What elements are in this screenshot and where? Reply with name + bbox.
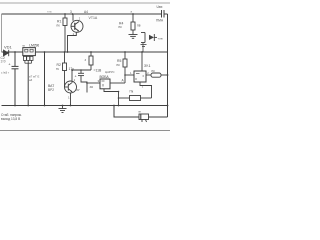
svg-text:пк: пк — [117, 63, 121, 67]
svg-text:ЦАРУС: ЦАРУС — [105, 70, 115, 74]
svg-text:LM296: LM296 — [29, 43, 39, 47]
diode VD1 — [4, 50, 9, 56]
wire U1 pin to bus — [27, 63, 29, 105]
IC DA2 — [100, 79, 110, 89]
IC DA1 — [134, 71, 146, 82]
photo top edge — [0, 2, 170, 4]
switch SA1 — [141, 33, 157, 43]
wire right bus — [167, 14, 169, 117]
wire bottom bus — [2, 105, 168, 107]
svg-text:=11В: =11В — [94, 69, 102, 73]
junction dots — [14, 13, 168, 106]
wire SA1 to rail — [142, 43, 144, 53]
svg-text:1т0: 1т0 — [1, 60, 6, 64]
transistor VT1 — [68, 14, 84, 52]
svg-text:2: 2 — [74, 78, 76, 82]
ground under R4 — [129, 35, 138, 39]
regulator U1 LM296 body — [23, 48, 36, 56]
regulator U1 pin boxes — [23, 56, 33, 63]
svg-text:ВОБА: ВОБА — [100, 75, 110, 79]
wire column C — [44, 52, 46, 106]
svg-text:А4: А4 — [84, 10, 88, 14]
resistor R5 — [123, 52, 127, 83]
wire output loop right — [149, 116, 168, 118]
svg-text:за: за — [90, 85, 93, 89]
svg-text:А: А — [122, 79, 125, 83]
svg-text:+лв: +лв — [158, 37, 164, 41]
wire DA2 left — [87, 82, 100, 84]
wire DA1 top — [141, 52, 143, 71]
svg-text:+: + — [75, 75, 77, 79]
svg-text:с IвЗ т: с IвЗ т — [1, 71, 10, 75]
wire collector node — [72, 69, 91, 71]
ground arrow mark — [141, 45, 147, 47]
wire DA1 right — [146, 74, 151, 76]
resistor R9 — [119, 96, 152, 101]
svg-text:ЗУ: ЗУ — [76, 88, 80, 92]
wire R8 to right bus — [161, 74, 168, 76]
svg-text:пк: пк — [57, 23, 61, 27]
svg-text:3: 3 — [70, 10, 72, 14]
wire mid rail — [2, 51, 168, 53]
transistor VT2 — [65, 70, 77, 106]
wire DA2 bottom — [104, 89, 119, 92]
svg-text:пв: пв — [137, 24, 141, 28]
svg-text:2: 2 — [79, 17, 81, 21]
connector XP1 — [139, 114, 149, 122]
svg-text:Uвх: Uвх — [157, 5, 163, 9]
svg-text:пк: пк — [152, 69, 156, 73]
svg-text:а: а — [131, 10, 133, 14]
resistor R1 — [63, 14, 67, 52]
wire top rail right segment — [165, 13, 168, 15]
svg-text:п га: п га — [47, 11, 52, 14]
junction dot — [118, 91, 120, 93]
svg-text:ВР2: ВР2 — [48, 88, 54, 92]
svg-text:Пк: Пк — [130, 90, 134, 94]
wire output loop bottom — [114, 106, 139, 118]
svg-text:пк: пк — [119, 25, 123, 29]
svg-text:аЗ: аЗ — [29, 78, 33, 82]
svg-text:тк: тк — [56, 67, 59, 71]
svg-text:1: 1 — [130, 71, 132, 75]
svg-text:выход 13,8 В: выход 13,8 В — [1, 117, 20, 121]
svg-text:вг: вг — [139, 110, 142, 114]
wire DA1 left — [125, 74, 134, 76]
resistor R2 — [63, 52, 67, 87]
wire DA1 bottom pin — [140, 82, 152, 98]
resistor R8 — [151, 73, 161, 77]
resistor R4 — [131, 14, 135, 35]
wire left bus — [1, 14, 3, 52]
svg-text:VT1A: VT1A — [89, 16, 98, 20]
capacitor C3 — [78, 70, 87, 93]
svg-text:3: 3 — [98, 79, 100, 83]
capacitor C4 — [162, 10, 165, 18]
capacitor C2 — [12, 52, 19, 106]
svg-text:VD1: VD1 — [4, 44, 13, 49]
svg-text:2: 2 — [147, 71, 149, 75]
svg-text:ЗУ.1: ЗУ.1 — [144, 64, 151, 68]
wire DA2 right — [110, 82, 125, 84]
svg-text:1: 1 — [68, 96, 70, 100]
wire to bus — [118, 92, 120, 106]
svg-text:з: з — [85, 58, 87, 62]
svg-text:+: + — [8, 61, 11, 66]
photo bottom edge — [0, 130, 170, 132]
svg-text:ПМА: ПМА — [156, 19, 164, 23]
ground at bus — [59, 106, 67, 113]
resistor R3 — [89, 52, 93, 70]
wire top rail left segment — [2, 13, 162, 15]
